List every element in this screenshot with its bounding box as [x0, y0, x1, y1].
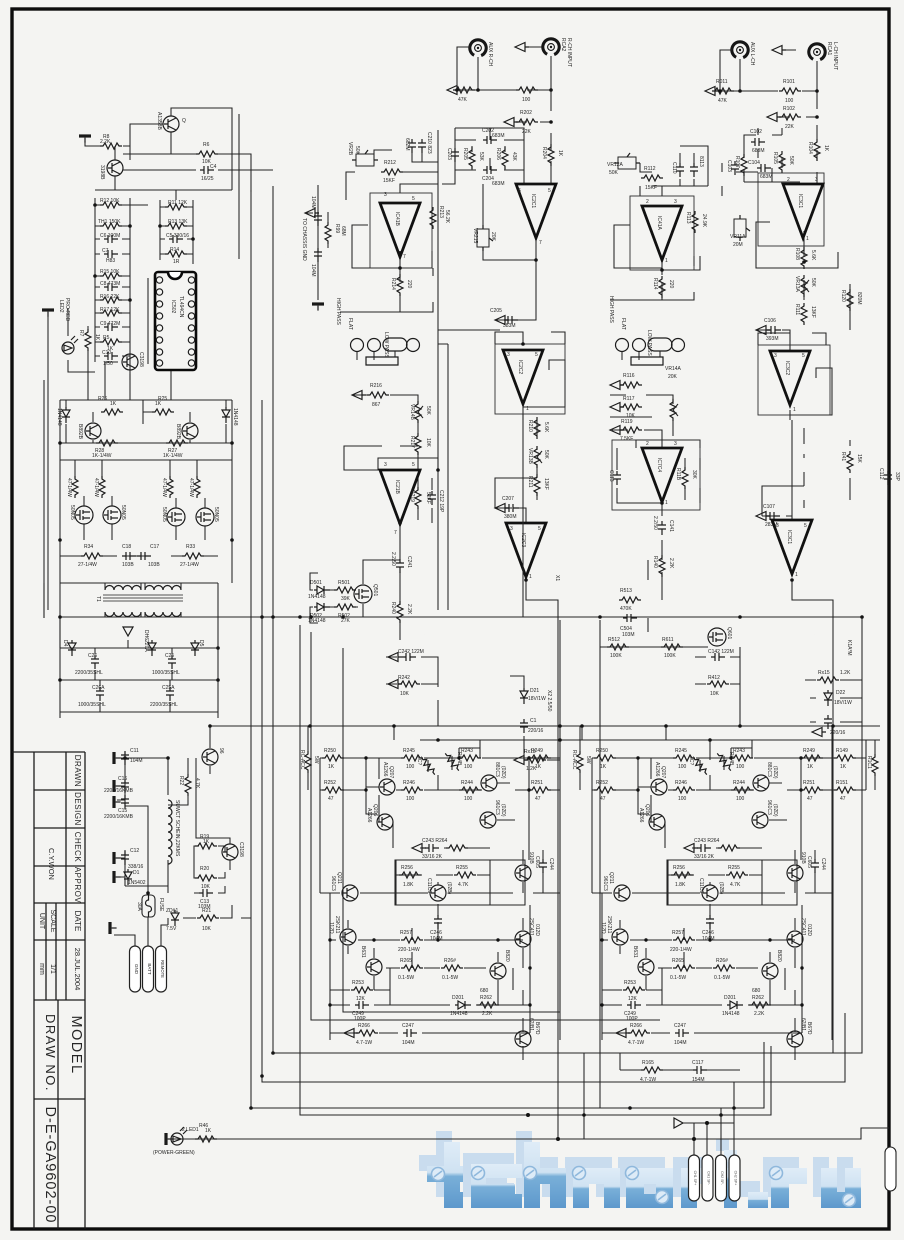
off-page arrow R266 — [344, 1029, 358, 1038]
transistor Q501 — [354, 585, 372, 603]
svg-text:15KF: 15KF — [383, 178, 395, 184]
off-page arrow R011 — [705, 87, 719, 96]
capacitor C10 — [104, 352, 118, 360]
rca jack R-CH INPUT — [540, 36, 562, 58]
svg-text:REMOTE: REMOTE — [160, 960, 165, 978]
svg-text:2.2K: 2.2K — [100, 139, 111, 145]
resistor R114 — [659, 276, 665, 298]
resistor R249 — [529, 755, 551, 761]
svg-text:C247: C247 — [402, 1023, 414, 1029]
resistor R107 — [741, 154, 747, 176]
resistor R245 — [401, 755, 423, 761]
resistor R250 — [322, 755, 344, 761]
capacitor C210 — [418, 139, 426, 153]
svg-text:A1266: A1266 — [382, 762, 388, 777]
svg-text:DESIGN: DESIGN — [73, 792, 82, 826]
svg-text:AUX R-CH: AUX R-CH — [487, 42, 493, 67]
off-page arrow C2 — [812, 728, 826, 737]
svg-text:R120: R120 — [840, 290, 846, 302]
svg-text:47-1/4W: 47-1/4W — [66, 478, 72, 497]
svg-text:13KF: 13KF — [810, 306, 816, 318]
svg-text:104M: 104M — [402, 1040, 415, 1046]
svg-text:1K: 1K — [203, 839, 210, 845]
svg-text:50N05: 50N05 — [213, 507, 219, 522]
svg-text:X1: X1 — [554, 575, 560, 581]
resistor R13 — [165, 223, 187, 229]
watermark screws — [432, 1168, 445, 1181]
capacitor C141 — [658, 521, 666, 535]
svg-text:R252: R252 — [324, 780, 336, 786]
svg-text:50K: 50K — [609, 170, 619, 176]
resistor R118 — [682, 467, 688, 489]
svg-text:104M: 104M — [430, 936, 443, 942]
off-page arrow R119 — [610, 426, 624, 435]
svg-text:43K: 43K — [511, 152, 517, 162]
svg-text:C205: C205 — [490, 308, 502, 314]
resistor R149 — [834, 755, 856, 761]
op-amp IC2C3 — [506, 523, 546, 577]
svg-text:1K: 1K — [110, 401, 117, 407]
resistor R204 — [548, 144, 554, 166]
svg-text:50K: 50K — [810, 278, 816, 288]
svg-text:VR12A: VR12A — [607, 162, 624, 168]
svg-text:C203: C203 — [446, 148, 452, 160]
svg-text:22K: 22K — [785, 124, 795, 130]
resistor R28 — [96, 440, 118, 446]
potentiometer VR13B — [534, 446, 540, 468]
svg-text:1N4148: 1N4148 — [232, 408, 238, 426]
svg-text:18V/1W: 18V/1W — [834, 700, 852, 706]
transistor Q213 output — [490, 963, 506, 979]
svg-text:C8 473M: C8 473M — [100, 281, 120, 287]
svg-text:961C3: 961C3 — [494, 800, 500, 815]
svg-text:12K: 12K — [356, 996, 366, 1002]
svg-text:R99: R99 — [334, 224, 340, 233]
svg-text:B892B: B892B — [175, 424, 181, 440]
svg-text:R5: R5 — [103, 335, 110, 341]
resistor R12 — [100, 202, 122, 208]
svg-text:683M: 683M — [760, 174, 773, 180]
svg-text:1: 1 — [793, 407, 796, 413]
svg-text:R14: R14 — [170, 247, 179, 253]
chassis ground C16 — [112, 780, 120, 792]
junction dots bottom — [526, 1106, 709, 1141]
svg-text:FLAT: FLAT — [620, 318, 626, 330]
svg-text:R6: R6 — [203, 142, 210, 148]
svg-text:D22: D22 — [836, 690, 845, 696]
wire amp rails — [60, 617, 880, 1108]
svg-text:A1266: A1266 — [366, 808, 372, 823]
svg-text:C9 472M: C9 472M — [100, 321, 120, 327]
svg-text:R214: R214 — [390, 278, 396, 290]
capacitor C203 — [451, 148, 459, 162]
svg-text:D5: D5 — [198, 640, 204, 647]
resistor R1C1 — [872, 754, 878, 776]
resistor R205 — [469, 147, 475, 169]
capacitor C26A — [96, 687, 104, 701]
op-amp U8 box — [758, 345, 830, 415]
resistor R20 — [195, 875, 217, 881]
svg-text:2: 2 — [787, 177, 790, 183]
zener ZD1 — [171, 910, 179, 926]
capacitor C18 — [122, 552, 136, 560]
capacitor C504 — [623, 614, 637, 622]
potentiometer VR11A — [734, 215, 750, 241]
off-page arrow chassis — [305, 209, 319, 218]
svg-text:R41: R41 — [840, 452, 846, 461]
resistor R165 — [641, 1067, 663, 1073]
LED2 — [62, 336, 78, 354]
svg-text:(02D): (02D) — [500, 804, 506, 817]
resistor R501 — [334, 587, 356, 593]
svg-text:D21: D21 — [530, 688, 539, 694]
ground (top left) — [79, 134, 91, 142]
switch SW2 — [351, 338, 420, 365]
svg-text:47K: 47K — [718, 98, 728, 104]
svg-text:7.5KF: 7.5KF — [620, 436, 633, 442]
capacitor C106 — [767, 326, 781, 334]
svg-text:(POWER-GREEN): (POWER-GREEN) — [153, 1150, 195, 1156]
svg-text:IC41A: IC41A — [656, 216, 662, 231]
svg-text:K1A*M: K1A*M — [846, 640, 852, 656]
svg-text:5: 5 — [804, 523, 807, 529]
svg-text:C7: C7 — [102, 248, 109, 254]
capacitor C112 — [884, 471, 892, 485]
resistor R252 — [322, 787, 344, 793]
svg-text:50K: 50K — [425, 406, 431, 416]
svg-text:C107: C107 — [763, 504, 775, 510]
op-amp IC3C1A — [783, 184, 823, 238]
svg-text:1R: 1R — [173, 259, 180, 265]
svg-text:R240: R240 — [390, 602, 396, 614]
svg-text:C241: C241 — [406, 556, 412, 568]
resistor R611 — [661, 644, 683, 650]
transistor Q1 — [163, 116, 179, 132]
off-page arrow C205 — [495, 316, 509, 325]
svg-text:5.6K: 5.6K — [543, 422, 549, 433]
svg-text:DH6220A: DH6220A — [143, 630, 149, 652]
svg-text:R165: R165 — [642, 1060, 654, 1066]
resistor Rx15 — [817, 677, 839, 683]
svg-text:R256: R256 — [401, 865, 413, 871]
capacitor C243 — [425, 844, 439, 852]
svg-text:910B: 910B — [528, 852, 534, 864]
fuse F1 — [142, 895, 155, 917]
resistor R25 — [152, 409, 174, 415]
svg-text:C104: C104 — [748, 160, 760, 166]
wire preamp mid group — [305, 56, 565, 992]
svg-text:CH2 SP-: CH2 SP- — [720, 1171, 724, 1186]
op-amp U9 box — [612, 440, 700, 510]
diode D501 — [314, 586, 330, 594]
off-page arrow C107 — [756, 512, 770, 521]
resistor R105 — [779, 151, 785, 173]
svg-text:R243: R243 — [461, 748, 473, 754]
svg-text:T1: T1 — [95, 596, 101, 602]
op-amp IC2C1 — [516, 184, 556, 238]
capacitor C13 — [199, 889, 213, 897]
svg-text:R250: R250 — [324, 748, 336, 754]
svg-text:HIGH PASS: HIGH PASS — [608, 296, 614, 324]
svg-text:R501: R501 — [338, 580, 350, 586]
svg-text:100: 100 — [464, 764, 473, 770]
svg-text:IC3C1: IC3C1 — [786, 530, 792, 544]
svg-text:VR11A: VR11A — [730, 234, 746, 240]
svg-text:961C3: 961C3 — [330, 876, 336, 891]
resistor R214 — [397, 274, 403, 296]
svg-text:R219: R219 — [409, 490, 415, 502]
op-amp IC7C4 — [642, 448, 682, 502]
svg-text:5: 5 — [538, 526, 541, 532]
connector REMOTE — [156, 946, 167, 992]
svg-text:R266: R266 — [358, 1023, 370, 1029]
capacitor C+2 — [314, 248, 322, 262]
svg-text:47-1/4W: 47-1/4W — [93, 478, 99, 497]
potentiometer VR215 — [477, 225, 493, 251]
resistor R120 — [847, 289, 853, 311]
junction dots global — [58, 88, 864, 1117]
diode D502 — [314, 603, 330, 611]
resistor R243 — [459, 755, 481, 761]
resistor R34 — [81, 553, 103, 559]
svg-text:1: 1 — [795, 572, 798, 578]
svg-text:8113: 8113 — [698, 156, 704, 167]
resistor R119b — [847, 451, 853, 473]
svg-text:B6?D: B6?D — [534, 1022, 540, 1035]
svg-text:VR14B: VR14B — [409, 404, 415, 421]
svg-text:50K: 50K — [788, 156, 794, 166]
svg-text:220: 220 — [668, 280, 674, 289]
svg-text:27-1/4W: 27-1/4W — [78, 562, 97, 568]
resistor R513 — [619, 597, 641, 603]
svg-text:47: 47 — [840, 796, 846, 802]
resistor R242 — [398, 681, 420, 687]
capacitor C204 — [483, 166, 497, 174]
resistor R211 — [534, 474, 540, 496]
svg-text:56.2K: 56.2K — [444, 210, 450, 224]
resistor R151 — [834, 787, 856, 793]
svg-text:R26#: R26# — [444, 958, 456, 964]
svg-text:(02B): (02B) — [446, 882, 452, 895]
svg-text:10K: 10K — [202, 926, 212, 932]
svg-text:683M: 683M — [492, 133, 505, 139]
svg-text:100K: 100K — [664, 653, 676, 659]
resistor R26 — [101, 409, 123, 415]
svg-text:D-E-GA9602-00: D-E-GA9602-00 — [42, 1107, 58, 1224]
svg-text:5: 5 — [535, 352, 538, 358]
svg-text:R114: R114 — [652, 278, 658, 290]
off-page arrow C106 — [756, 326, 770, 335]
svg-text:39K: 39K — [341, 596, 351, 602]
svg-text:1K: 1K — [823, 145, 829, 152]
svg-text:DRAW NO.: DRAW NO. — [43, 1014, 58, 1092]
resistor R246 — [401, 787, 423, 793]
resistor R19 — [195, 843, 217, 849]
svg-text:R253: R253 — [352, 980, 364, 986]
svg-text:3: 3 — [776, 523, 779, 529]
svg-text:B631: B631 — [360, 946, 366, 958]
svg-text:C26A: C26A — [92, 685, 105, 691]
svg-text:012D: 012D — [534, 924, 540, 936]
svg-text:112D: 112D — [328, 922, 334, 934]
svg-text:LED2: LED2 — [58, 300, 64, 313]
svg-text:1K: 1K — [557, 150, 563, 157]
svg-text:CH2 SP+: CH2 SP+ — [734, 1171, 738, 1186]
resistor R212 — [381, 169, 403, 175]
resistor R216 — [367, 392, 389, 398]
thermistor TH1 — [100, 223, 122, 229]
title block frame — [12, 752, 85, 1229]
svg-text:1.2K: 1.2K — [840, 670, 851, 676]
svg-text:LOW PASS: LOW PASS — [383, 332, 389, 358]
transistor Q11 FET — [75, 506, 93, 524]
svg-text:100: 100 — [464, 796, 473, 802]
svg-text:CH1 SP+: CH1 SP+ — [693, 1171, 697, 1186]
svg-text:C26: C26 — [88, 653, 97, 659]
svg-text:30A: 30A — [136, 902, 142, 912]
svg-text:1K: 1K — [205, 1128, 212, 1134]
svg-text:R202: R202 — [520, 110, 532, 116]
svg-text:R116: R116 — [623, 373, 635, 379]
svg-text:13KF: 13KF — [543, 478, 549, 490]
resistor R247 diagonal — [419, 755, 437, 776]
svg-text:VR215: VR215 — [472, 228, 478, 244]
svg-text:R105: R105 — [772, 152, 778, 164]
transistor Q12 FET — [103, 506, 121, 524]
svg-text:1: 1 — [665, 500, 668, 506]
svg-text:27K: 27K — [341, 618, 351, 624]
svg-text:3: 3 — [674, 441, 677, 447]
zener D22 — [824, 690, 832, 706]
svg-text:BATT: BATT — [147, 963, 152, 974]
op-amp IC41A — [642, 206, 682, 260]
capacitor C8 — [104, 283, 118, 291]
svg-text:L-CH INPUT: L-CH INPUT — [832, 42, 838, 70]
resistor R213 — [430, 207, 436, 229]
junction dots amp — [328, 756, 531, 1006]
svg-text:2: 2 — [646, 441, 649, 447]
off-page arrow R216 — [352, 391, 366, 400]
svg-text:FLAT: FLAT — [347, 318, 353, 330]
svg-text:C210 823: C210 823 — [426, 132, 432, 154]
svg-text:220/16: 220/16 — [528, 728, 544, 734]
svg-text:10K: 10K — [425, 438, 431, 448]
svg-text:R213: R213 — [438, 206, 444, 218]
svg-text:R512: R512 — [608, 637, 620, 643]
transistor Q8 — [85, 423, 101, 439]
svg-text:68M: 68M — [340, 226, 346, 236]
transistor Q212 output — [366, 959, 382, 975]
LED1 — [171, 1127, 187, 1145]
svg-text:20K: 20K — [490, 232, 496, 242]
svg-text:C16: C16 — [118, 776, 127, 782]
diode D2 — [222, 407, 230, 423]
resistor R108 — [801, 247, 807, 269]
IC501 pins — [156, 277, 194, 366]
svg-text:15KF: 15KF — [645, 185, 657, 191]
svg-text:1: 1 — [526, 406, 529, 412]
svg-text:2.2/50: 2.2/50 — [390, 552, 396, 566]
svg-text:R257: R257 — [400, 930, 412, 936]
svg-text:33P: 33P — [894, 472, 900, 482]
resistor R201 47K — [453, 87, 475, 93]
svg-text:D1: D1 — [133, 870, 140, 876]
rca jack AUX R-CH — [467, 37, 489, 59]
op-amp IC41B — [380, 203, 420, 257]
op-amp U5 box — [495, 344, 565, 414]
svg-text:D201: D201 — [452, 995, 464, 1001]
wire driver area — [44, 400, 862, 718]
svg-text:4.7K: 4.7K — [194, 778, 200, 789]
svg-text:1K: 1K — [328, 764, 335, 770]
svg-text:R249: R249 — [531, 748, 543, 754]
svg-text:2.2K: 2.2K — [406, 604, 412, 615]
resistor R101 100 — [779, 88, 801, 94]
svg-text:R265: R265 — [400, 958, 412, 964]
svg-text:R12 10K: R12 10K — [100, 198, 120, 204]
svg-text:R212: R212 — [384, 160, 396, 166]
svg-text:R245: R245 — [403, 748, 415, 754]
svg-text:LOW PASS: LOW PASS — [646, 330, 652, 356]
svg-text:R140: R140 — [652, 556, 658, 568]
resistor R244 — [459, 787, 481, 793]
capacitor C247 — [403, 1029, 417, 1037]
svg-text:VR14A: VR14A — [665, 366, 682, 372]
transistor Q211 — [342, 885, 358, 901]
resistor R248 diagonal — [443, 751, 461, 772]
resistor Rx13 — [524, 757, 546, 763]
switch SW1 — [616, 338, 685, 365]
svg-text:D501: D501 — [310, 580, 322, 586]
svg-text:IC21B: IC21B — [394, 480, 400, 495]
wire PSU top group — [48, 108, 273, 610]
svg-text:IC3C1: IC3C1 — [797, 194, 803, 208]
resistor R117 — [620, 404, 642, 410]
ground arrow mid — [123, 627, 133, 636]
transistor Q7 — [182, 423, 198, 439]
capacitor C12 — [121, 851, 129, 865]
svg-text:3: 3 — [384, 192, 387, 198]
svg-text:1000/35SHL: 1000/35SHL — [78, 702, 106, 708]
diode D1 — [124, 869, 132, 885]
svg-text:R7: R7 — [78, 330, 84, 337]
svg-text:C10: C10 — [102, 350, 111, 356]
svg-text:22K: 22K — [522, 129, 532, 135]
svg-text:C11: C11 — [130, 748, 139, 754]
svg-text:50N05: 50N05 — [161, 507, 167, 522]
capacitor C9 — [104, 323, 118, 331]
svg-text:96: 96 — [218, 748, 224, 754]
resistor R15 — [100, 273, 122, 279]
svg-text:IC502: IC502 — [170, 300, 176, 314]
svg-text:7.5V: 7.5V — [166, 926, 177, 932]
svg-text:H83: H83 — [106, 258, 115, 264]
svg-text:C605: C605 — [534, 856, 540, 868]
svg-text:52KF: 52KF — [425, 492, 431, 504]
resistor R263 — [441, 965, 463, 971]
svg-text:47: 47 — [328, 796, 334, 802]
svg-text:683M: 683M — [492, 181, 505, 187]
resistor RC-ACC — [305, 751, 311, 773]
svg-text:16/25: 16/25 — [201, 176, 214, 182]
resistor R7 — [85, 329, 91, 351]
svg-text:47-1/4W: 47-1/4W — [161, 478, 167, 497]
svg-text:1N4148: 1N4148 — [308, 594, 326, 600]
svg-text:2: 2 — [646, 199, 649, 205]
svg-text:2SC411: 2SC411 — [528, 918, 534, 936]
transformer T1 — [103, 583, 183, 617]
watermark tehnari.ru main — [427, 1142, 861, 1208]
